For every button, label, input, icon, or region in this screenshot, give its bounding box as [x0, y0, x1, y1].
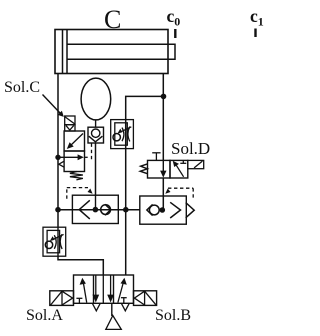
wire: horizontal to center line: [126, 96, 164, 119]
directional valve (bottom, Sol.A / Sol.B): [50, 275, 157, 329]
box1 diagonal arrow: [83, 283, 86, 303]
exhaust chevrons: [93, 304, 100, 311]
node: junction center line / flow line: [123, 207, 129, 213]
position box 2: [170, 160, 188, 178]
wire: oval to check valve: [95, 120, 97, 127]
wire: center line through FC1 down to junction: [125, 120, 127, 210]
position box 2: [64, 151, 84, 172]
exhaust line and muffler triangle: [111, 303, 113, 316]
box1 plug T: [76, 297, 82, 299]
box3 diagonal arrow: [118, 283, 123, 303]
pilot check valve PCV2 (right): [140, 196, 187, 224]
flow control valve FC2 (lower left): [43, 227, 66, 256]
accumulator oval: [81, 78, 111, 120]
piston rod: [67, 44, 175, 59]
pilot line dashed PCV1: [67, 188, 88, 199]
node: junction Sol.C input: [55, 155, 60, 160]
flow control valve FC1 (right of oval): [111, 120, 134, 149]
wire: left wire to bottom valve: [58, 256, 103, 275]
wire: through FC2: [57, 227, 59, 256]
valve Sol.D: [140, 153, 204, 178]
label C: [104, 5, 121, 35]
spring: [70, 172, 83, 180]
valve Sol.C: [58, 116, 88, 180]
position box 1: [64, 131, 84, 151]
label c1: [250, 6, 264, 30]
solenoid box: [65, 116, 75, 125]
check valve CV1 (below oval): [88, 127, 104, 143]
push box: [65, 125, 75, 131]
node: junction left wire / flow line: [55, 207, 61, 213]
node: junction right wire: [161, 94, 167, 100]
solenoid Sol.A box: [50, 291, 74, 306]
wire: right vertical from cylinder right port: [162, 74, 164, 161]
solenoid box: [188, 160, 204, 168]
box3 plug T: [121, 297, 127, 299]
pilot check valve PCV1 (left): [72, 195, 118, 223]
label Sol.D: [171, 139, 210, 159]
label c0: [167, 6, 181, 30]
box2 through line: [102, 275, 104, 303]
label Sol.C: [4, 79, 40, 97]
outlet chevron PCV2: [186, 203, 195, 218]
plugged port above box1: [155, 153, 157, 161]
label Sol.C leader arrow: [43, 95, 61, 114]
solenoid Sol.B box: [134, 291, 157, 306]
body: [74, 275, 134, 303]
wire: CV1 down to pilot check valve: [95, 143, 97, 195]
spring: [140, 164, 148, 174]
exhaust port triangle: [59, 161, 64, 167]
pilot line dashed (from CV1): [91, 144, 93, 160]
position box 1: [148, 160, 171, 178]
pilot line dashed PCV2: [168, 188, 193, 200]
wire: left vertical from cylinder left port: [57, 74, 59, 228]
wire: center line to bottom valve: [125, 210, 127, 275]
wire: flow line through PCV1: [58, 209, 140, 211]
piston: [62, 30, 64, 74]
label Sol.A: [26, 307, 63, 325]
box2 down arrows: [95, 275, 97, 297]
cylinder C body: [55, 30, 168, 74]
wire: Sol.D to pilot check valve: [162, 178, 164, 210]
label Sol.B: [155, 307, 191, 325]
sensor c1 tick: [254, 29, 256, 38]
sensor c0 tick: [174, 29, 176, 38]
